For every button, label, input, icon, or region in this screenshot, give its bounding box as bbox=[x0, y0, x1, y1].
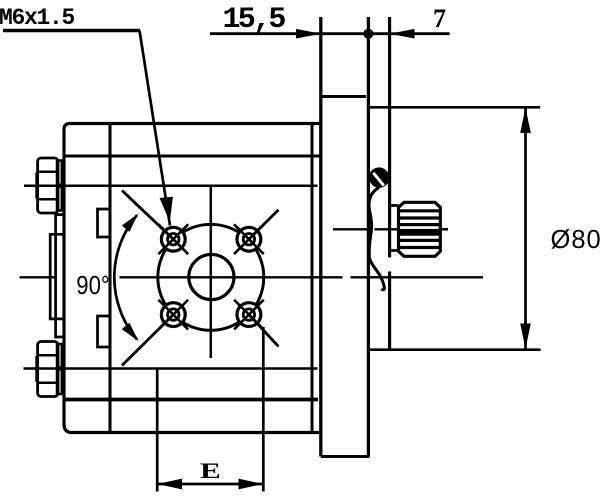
M6x1.5 leader underline bbox=[3, 29, 140, 32]
bottom plug junction wedge bbox=[57, 363, 65, 374]
dia80 bottom arrowhead bbox=[520, 324, 531, 350]
15,5 arrow bbox=[296, 29, 321, 39]
mounting flange front face bbox=[319, 17, 322, 457]
body lower joint line bbox=[64, 398, 318, 402]
shaft neck bbox=[391, 206, 399, 251]
90 arc bottom arrowhead bbox=[122, 323, 139, 342]
flange bottom edge bbox=[321, 455, 370, 458]
shaft centerline bbox=[333, 228, 448, 230]
body right edge bbox=[311, 124, 314, 433]
break line wave bbox=[369, 188, 384, 290]
svg-text:15,5: 15,5 bbox=[223, 3, 286, 37]
body joint line bbox=[64, 155, 321, 158]
E right arrowhead bbox=[239, 479, 264, 490]
bottom hex plug bbox=[38, 342, 58, 397]
top plug junction wedge bbox=[57, 180, 65, 191]
spline teeth bbox=[399, 211, 441, 248]
bottom gear centerline bbox=[24, 367, 318, 369]
svg-text:M6x1.5: M6x1.5 bbox=[0, 5, 75, 31]
7 arrow bbox=[390, 29, 415, 39]
front view vertical centerline bbox=[210, 186, 212, 358]
diameter 80 dimension line bbox=[524, 108, 527, 349]
main horizontal centerline bbox=[20, 276, 484, 278]
left port boss bbox=[50, 234, 64, 319]
flange top edge bbox=[321, 95, 366, 98]
bolt hole BL bbox=[122, 300, 188, 366]
top plug washer bbox=[57, 161, 62, 211]
body section line bbox=[108, 124, 111, 433]
break hook white slash bbox=[373, 173, 384, 186]
spigot bottom edge + dim extension bbox=[368, 348, 540, 351]
spigot top edge + dim extension bbox=[368, 106, 540, 109]
bolt hole BR bbox=[234, 300, 278, 347]
E dimension extension left bbox=[156, 369, 159, 492]
dia80 top arrowhead bbox=[520, 108, 531, 134]
M6x1.5 leader arrowhead bbox=[160, 197, 173, 222]
bottom plug washer bbox=[57, 344, 62, 394]
top port notch bbox=[98, 209, 111, 237]
left port flange tab bbox=[56, 215, 64, 337]
bottom port notch bbox=[98, 316, 111, 347]
mounting flange rear face bbox=[367, 17, 370, 457]
svg-text:E: E bbox=[200, 458, 221, 482]
svg-text:90°: 90° bbox=[76, 272, 109, 301]
E dimension extension right bbox=[262, 327, 265, 492]
splined shaft body bbox=[399, 202, 441, 256]
E dimension line bbox=[157, 483, 263, 486]
bolt hole TR bbox=[234, 210, 278, 254]
top hex plug bbox=[38, 158, 58, 213]
90 arc top arrowhead bbox=[122, 213, 139, 232]
shared dim dot bbox=[363, 29, 373, 39]
pump body outline bbox=[64, 124, 321, 433]
svg-text:7: 7 bbox=[433, 4, 446, 33]
E left arrowhead bbox=[157, 479, 182, 490]
bolt hole TL bbox=[122, 191, 188, 255]
gear center circle bbox=[189, 254, 234, 299]
break line hook bbox=[369, 167, 390, 187]
top dimension line bbox=[210, 32, 450, 35]
90 degree dimension arc bbox=[114, 215, 137, 339]
svg-text:Ø80: Ø80 bbox=[551, 226, 600, 254]
top gear centerline bbox=[24, 184, 318, 186]
spigot right face bbox=[388, 17, 391, 349]
M6x1.5 leader line bbox=[140, 31, 171, 226]
front view pilot circle bbox=[158, 224, 264, 330]
